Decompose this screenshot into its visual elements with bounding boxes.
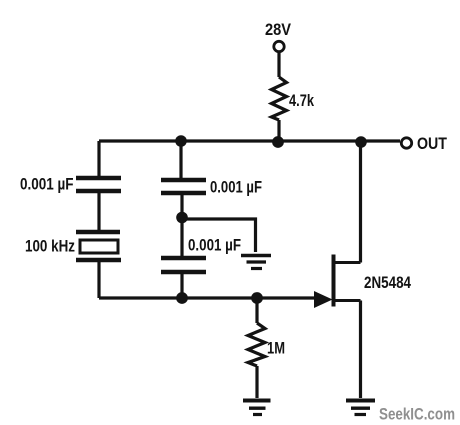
wire: C3 down to bottom rail: [180, 272, 183, 298]
wire: C2 to mid junction: [180, 193, 183, 217]
junction dot: top rail / middle branch: [175, 135, 187, 147]
resistor R1 4.7k: [272, 77, 287, 120]
svg-text:1M: 1M: [267, 340, 285, 358]
resistor R2 1M: [248, 323, 265, 366]
wire: source vertical down to ground: [359, 301, 362, 399]
wire: middle branch vertical (top rail down to C2): [179, 141, 182, 178]
terminal: 28V supply circle: [274, 41, 284, 51]
wire: bottom horizontal rail (gate line): [99, 296, 316, 299]
svg-text:0.001 µF: 0.001 µF: [210, 179, 262, 197]
wire: bottom rail junction down to R2: [255, 298, 258, 323]
wire: drain vertical (top rail down to JFET): [359, 141, 362, 263]
junction dot: top rail / R1: [272, 136, 284, 148]
wire: mid junction down to C3: [180, 218, 183, 256]
capacitor C3 0.001 uF (middle branch, lower): [161, 258, 206, 272]
junction dot: top rail / drain: [355, 136, 367, 148]
svg-text:2N5484: 2N5484: [364, 274, 412, 292]
capacitor C1 0.001 uF (left branch): [76, 178, 121, 191]
junction dot: bottom rail / R2: [251, 292, 263, 304]
wire: R2 down to ground: [255, 366, 258, 398]
junction dot: middle branch mid node: [176, 212, 188, 224]
wire: left branch vertical (crystal down to bottom rail): [97, 260, 100, 298]
wire: top horizontal rail from left branch to OUT terminal: [99, 139, 400, 142]
ground: source ground (right bottom): [346, 401, 375, 415]
svg-text:0.001 µF: 0.001 µF: [20, 176, 74, 194]
capacitor C2 0.001 uF (middle branch, upper): [161, 180, 206, 193]
wire: between C1 and crystal: [97, 191, 100, 230]
wire: mid junction to bypass ground (horizontal then down): [182, 219, 256, 252]
svg-text:0.001 µF: 0.001 µF: [188, 237, 241, 255]
wire: 28V terminal to R1: [277, 52, 280, 77]
junction dot: bottom rail / middle branch: [176, 292, 188, 304]
svg-text:4.7k: 4.7k: [289, 92, 315, 110]
svg-text:SeekIC.com: SeekIC.com: [379, 405, 455, 424]
transistor Q1 2N5484 (JFET): [314, 255, 361, 309]
wire: R1 to top rail: [277, 120, 280, 141]
wire: left branch vertical (top rail down to C1): [97, 141, 100, 176]
svg-text:OUT: OUT: [417, 135, 447, 153]
svg-text:28V: 28V: [265, 21, 291, 39]
svg-text:100 kHz: 100 kHz: [25, 238, 75, 256]
ground: R2 ground (bottom middle): [243, 401, 271, 415]
crystal Y1 100 kHz: [76, 232, 121, 260]
terminal: OUT circle: [401, 138, 411, 148]
ground: bypass ground (middle): [241, 256, 271, 269]
